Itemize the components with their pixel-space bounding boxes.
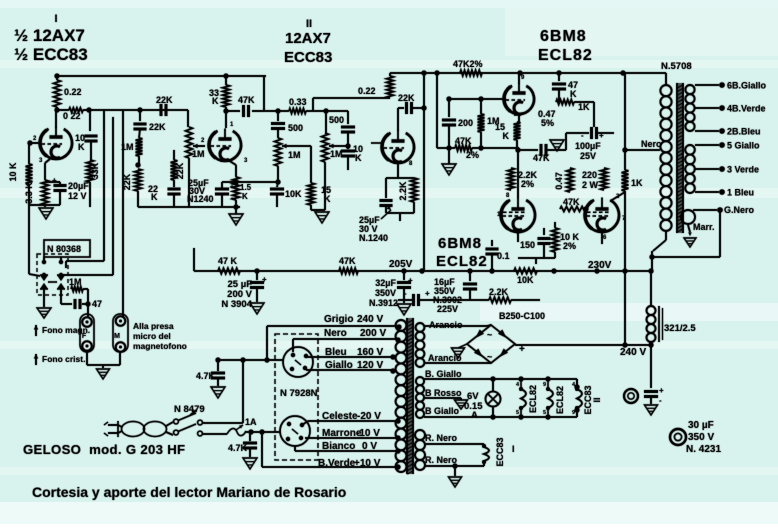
svg-text:225V: 225V [437, 304, 458, 314]
svg-text:2%: 2% [521, 179, 534, 189]
svg-text:200 V: 200 V [360, 328, 386, 339]
svg-text:N 7928N: N 7928N [280, 388, 318, 399]
svg-text:N. 4231: N. 4231 [686, 444, 721, 455]
svg-text:0.1: 0.1 [497, 251, 510, 261]
svg-text:G.Nero: G.Nero [724, 205, 755, 215]
svg-text:30 µF: 30 µF [688, 420, 714, 431]
svg-text:ECL82: ECL82 [436, 253, 488, 270]
svg-text:2%: 2% [466, 150, 479, 160]
svg-text:350 V: 350 V [688, 432, 714, 443]
svg-text:4.7K: 4.7K [196, 371, 216, 381]
svg-text:I: I [512, 444, 515, 454]
svg-text:N.3912: N.3912 [369, 298, 398, 308]
svg-text:4B.Verde: 4B.Verde [727, 104, 766, 114]
svg-text:+: + [659, 386, 664, 395]
svg-text:~: ~ [487, 352, 492, 362]
svg-text:12 V: 12 V [68, 191, 87, 201]
svg-text:-: - [659, 396, 662, 405]
svg-text:Fono magn.: Fono magn. [42, 325, 90, 335]
svg-text:Arancio: Arancio [429, 320, 463, 330]
svg-text:II: II [592, 397, 602, 402]
svg-text:+: + [230, 184, 234, 191]
svg-text:9: 9 [572, 410, 575, 416]
svg-text:K: K [503, 131, 510, 141]
svg-text:½ 12AX7: ½ 12AX7 [14, 26, 85, 45]
svg-text:magnetofono: magnetofono [133, 341, 187, 351]
svg-text:N1240: N1240 [187, 194, 214, 204]
svg-text:200: 200 [458, 118, 473, 128]
svg-text:47K: 47K [339, 256, 356, 266]
svg-text:½ ECC83: ½ ECC83 [14, 45, 88, 64]
svg-text:5: 5 [516, 410, 519, 416]
svg-text:220: 220 [582, 170, 597, 180]
svg-text:B Rosso: B Rosso [425, 388, 462, 398]
svg-text:2%: 2% [563, 241, 576, 251]
svg-text:ECL82: ECL82 [528, 385, 538, 413]
svg-text:500: 500 [329, 115, 344, 125]
svg-text:47K: 47K [563, 197, 580, 207]
svg-text:K: K [151, 192, 158, 202]
svg-text:+: + [408, 276, 413, 285]
svg-text:N 80368: N 80368 [47, 244, 81, 254]
svg-text:240 V: 240 V [620, 347, 646, 358]
svg-text:A: A [471, 410, 478, 421]
svg-text:500: 500 [288, 123, 303, 133]
svg-text:1M: 1M [330, 149, 343, 159]
svg-text:I: I [54, 13, 57, 25]
svg-text:6BM8: 6BM8 [540, 28, 587, 45]
svg-text:Nero: Nero [641, 139, 662, 149]
svg-text:+: + [262, 275, 267, 284]
svg-text:B Giallo: B Giallo [425, 406, 460, 416]
svg-text:22K: 22K [149, 122, 166, 132]
svg-text:M: M [114, 333, 120, 340]
svg-text:9: 9 [543, 382, 546, 388]
svg-text:3 Verde: 3 Verde [727, 165, 759, 175]
svg-text:5: 5 [543, 410, 546, 416]
svg-text:ECC83: ECC83 [284, 49, 332, 66]
svg-text:micro del: micro del [133, 331, 171, 341]
svg-text:1M: 1M [288, 150, 301, 160]
svg-text:K: K [355, 153, 362, 163]
svg-text:5 Giallo: 5 Giallo [727, 141, 760, 151]
svg-text:1M: 1M [121, 142, 134, 152]
svg-text:GELOSO mod. G 203 HF: GELOSO mod. G 203 HF [23, 442, 185, 457]
svg-text:Grigio: Grigio [324, 314, 353, 325]
svg-text:+: + [52, 176, 57, 185]
svg-text:B. Giallo: B. Giallo [425, 369, 462, 379]
svg-text:1.5: 1.5 [240, 183, 252, 192]
svg-text:~: ~ [487, 330, 492, 340]
svg-text:Cortesia y aporte del lector M: Cortesia y aporte del lector Mariano de … [32, 484, 346, 500]
svg-text:R. Nero: R. Nero [425, 433, 458, 443]
svg-text:205V: 205V [389, 259, 413, 270]
svg-text:20µF: 20µF [68, 181, 89, 191]
svg-text:230V: 230V [588, 260, 612, 271]
svg-text:2.2K: 2.2K [489, 287, 509, 297]
svg-text:350V: 350V [375, 288, 396, 298]
svg-text:1 Bleu: 1 Bleu [727, 188, 754, 198]
svg-text:Arancio: Arancio [428, 353, 462, 363]
svg-text:2 W: 2 W [582, 180, 599, 190]
svg-text:Marr.: Marr. [693, 222, 715, 232]
svg-text:47K: 47K [238, 95, 255, 105]
svg-text:100µF: 100µF [575, 141, 601, 151]
svg-text:3.3 K: 3.3 K [24, 182, 34, 204]
svg-text:Alla presa: Alla presa [133, 321, 174, 331]
svg-text:-: - [404, 289, 407, 298]
svg-text:ECC83: ECC83 [495, 437, 505, 466]
svg-text:+: + [425, 289, 430, 298]
svg-text:2B.Bleu: 2B.Bleu [727, 127, 761, 137]
svg-text:47: 47 [92, 299, 102, 309]
svg-text:240 V: 240 V [357, 314, 383, 325]
svg-text:47K: 47K [533, 153, 550, 163]
svg-text:22K: 22K [175, 162, 185, 179]
svg-text:1M: 1M [192, 149, 205, 159]
svg-text:ECL82: ECL82 [538, 47, 593, 64]
svg-text:10 K: 10 K [8, 162, 18, 182]
svg-text:Nero: Nero [324, 328, 347, 339]
svg-text:N.1240: N.1240 [359, 233, 388, 243]
svg-text:22K: 22K [122, 173, 132, 190]
svg-text:R. Nero: R. Nero [425, 455, 458, 465]
svg-text:1K: 1K [578, 102, 590, 112]
svg-text:32µF: 32µF [375, 278, 396, 288]
svg-text:N 3904: N 3904 [221, 299, 252, 310]
svg-text:II: II [306, 18, 312, 30]
svg-text:N 8479: N 8479 [174, 404, 205, 415]
svg-text:1A: 1A [245, 417, 257, 427]
svg-text:47K2%: 47K2% [453, 59, 483, 69]
svg-text:K: K [242, 192, 248, 201]
svg-text:ECL82: ECL82 [555, 386, 565, 414]
svg-text:33K: 33K [90, 162, 100, 179]
svg-text:0.33: 0.33 [289, 97, 307, 107]
svg-text:5%: 5% [541, 118, 554, 128]
svg-text:150: 150 [520, 240, 535, 250]
svg-text:K: K [570, 89, 577, 99]
svg-text:N.5708: N.5708 [661, 61, 692, 72]
svg-text:6BM8: 6BM8 [438, 235, 482, 252]
svg-text:Fono crist.: Fono crist. [42, 354, 85, 364]
svg-text:4.7K: 4.7K [228, 443, 248, 453]
svg-text:2.2K: 2.2K [398, 181, 408, 201]
svg-text:K: K [78, 142, 85, 152]
svg-text:10K: 10K [285, 189, 302, 199]
svg-text:321/2.5: 321/2.5 [664, 323, 696, 334]
svg-text:10K: 10K [517, 275, 534, 285]
svg-text:6B.Giallo: 6B.Giallo [727, 81, 767, 91]
svg-text:0.47: 0.47 [554, 172, 564, 190]
svg-text:22K: 22K [398, 93, 415, 103]
svg-text:0.22: 0.22 [358, 86, 376, 96]
svg-text:B250-C100: B250-C100 [499, 311, 545, 321]
svg-text:1K: 1K [631, 178, 643, 188]
svg-text:22K: 22K [156, 95, 173, 105]
svg-text:47 K: 47 K [218, 256, 238, 266]
svg-text:+: + [519, 344, 525, 355]
svg-text:12AX7: 12AX7 [285, 30, 331, 47]
svg-text:25V: 25V [580, 151, 596, 161]
svg-text:K: K [212, 96, 219, 106]
svg-text:47K: 47K [455, 136, 472, 146]
svg-text:0.22: 0.22 [64, 87, 82, 97]
